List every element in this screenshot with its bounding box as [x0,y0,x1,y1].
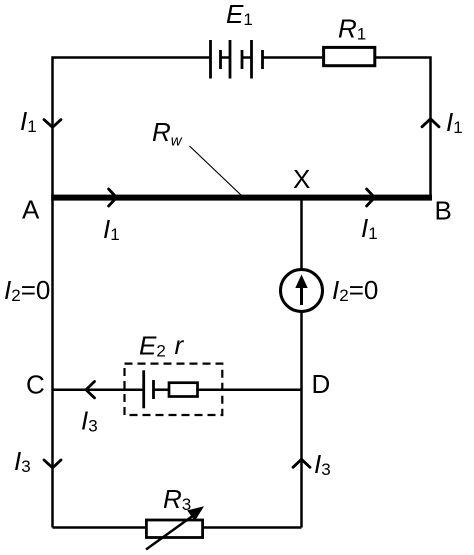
slide-wire resistor Rw (thick bar A-B) [51,195,432,201]
resistor R3 (variable) [146,506,204,549]
svg-text:X: X [293,164,310,194]
svg-text:C: C [26,370,45,400]
svg-text:r: r [175,330,185,360]
wire battery E1 to resistor R1 [263,56,323,59]
battery E2 [144,370,154,408]
svg-text:I2=0: I2=0 [332,275,378,305]
wire D down to bottom-right corner [300,390,303,528]
wire C to battery E2 [53,388,144,391]
arrow I3 on wire C-D (left) [86,382,95,398]
arrow I1 on left wire (down) [44,120,61,128]
wire C down to bottom-left corner [51,390,54,528]
arrow I1 on bar left half (right) [109,189,117,206]
current source I2 [281,270,323,312]
resistor r [169,383,198,397]
wire bottom-left corner to resistor R3 [53,526,146,529]
arrow I3 on right bottom wire (up) [293,459,310,467]
wire top-left horizontal (corner A-column to battery E1) [53,58,211,197]
wire left branch A to C [51,196,54,390]
arrow I1 on right wire (up) [422,119,439,127]
arrow I3 on left bottom wire (down) [44,460,61,468]
svg-text:D: D [312,369,331,399]
wire resistor R1 to corner, down to node B [375,58,431,197]
wire current source to node D [300,312,303,390]
svg-text:A: A [22,195,40,225]
dashed box around E2 and r [125,364,223,415]
svg-text:I2=0: I2=0 [4,275,50,305]
wire E2 to resistor r [154,388,169,391]
pointer line from Rw label to bar [190,146,242,196]
wire node X down to current source [300,200,303,269]
battery E1 [211,40,263,79]
resistor R1 [324,47,375,65]
wire resistor r to node D [198,388,302,391]
arrow I1 on bar right half (right) [367,189,375,206]
svg-text:B: B [435,196,452,226]
wire resistor R3 to bottom-right corner [204,526,302,529]
